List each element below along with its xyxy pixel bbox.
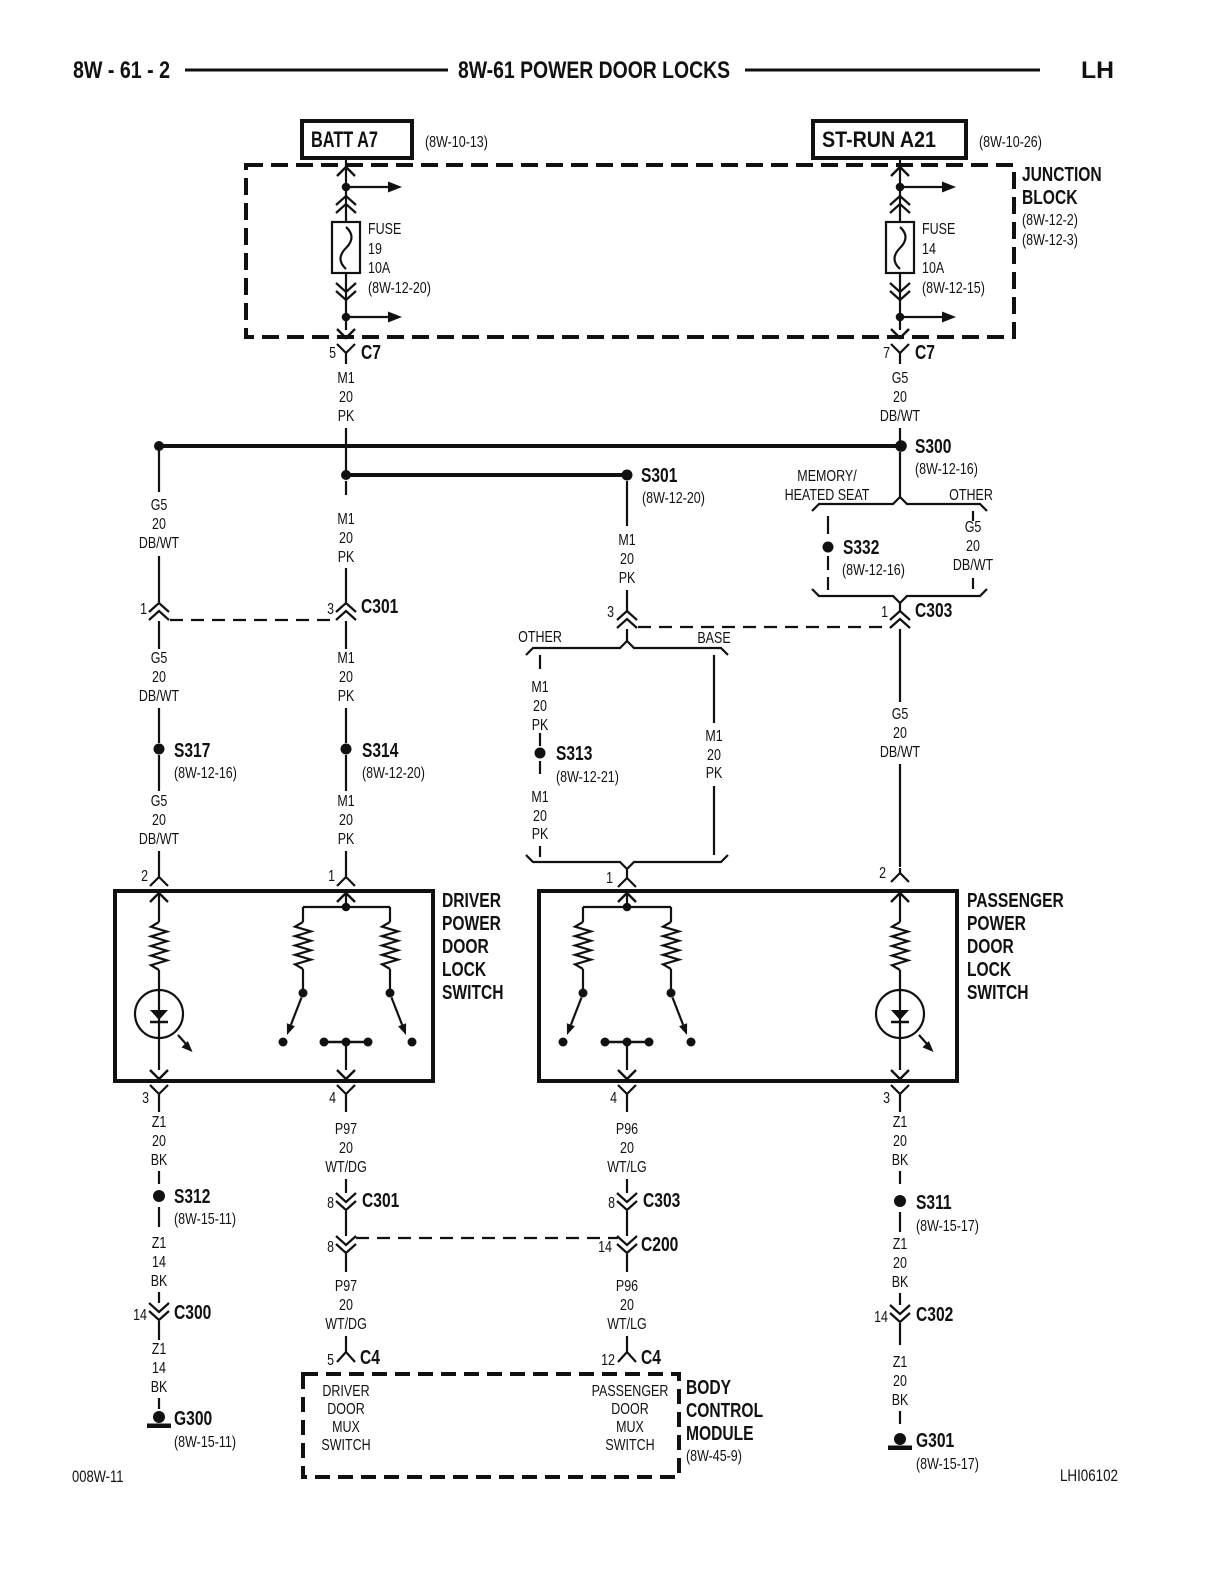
wire C303 down [899, 629, 901, 702]
svg-text:C303: C303 [643, 1190, 680, 1212]
option link C301 pins 1-3 (dashed) [170, 619, 336, 621]
svg-text:HEATED SEAT: HEATED SEAT [785, 487, 870, 504]
passenger switch resistor (lock side) [575, 922, 591, 969]
wire C301 to C200 [345, 1211, 347, 1236]
header rule left [185, 69, 448, 72]
svg-text:M1: M1 [618, 532, 635, 549]
svg-text:BK: BK [892, 1274, 909, 1291]
wire to C301 pin 3 [345, 568, 347, 602]
ground G300 [153, 1411, 165, 1423]
svg-text:S332: S332 [843, 537, 879, 559]
wire to C301 pin 1 [158, 556, 160, 602]
svg-text:20: 20 [620, 551, 634, 568]
driver switch output wire [345, 1042, 347, 1070]
splice S301 bus wire [346, 473, 627, 477]
power feed box ST-RUN A21 [813, 121, 966, 158]
junction dot above fuse 14 [896, 183, 905, 192]
svg-text:SWITCH: SWITCH [442, 982, 504, 1004]
wire C7-5 to splice S301 (M1 circuit) [345, 428, 347, 471]
splice S332 [823, 542, 834, 553]
splice S300 [895, 440, 907, 452]
wire to ground G300 [158, 1398, 160, 1409]
svg-text:C303: C303 [915, 600, 952, 622]
wire label P96 20 WT/LG (col C lower) [626, 1254, 628, 1272]
svg-text:20: 20 [707, 747, 721, 764]
ground G301 [894, 1433, 906, 1445]
feed arrow right below fuse 19 [346, 316, 388, 318]
svg-text:20: 20 [339, 669, 353, 686]
svg-text:(8W-12-20): (8W-12-20) [368, 280, 431, 297]
svg-text:20: 20 [893, 1373, 907, 1390]
junction dot below fuse 19 [342, 313, 351, 322]
svg-text:8W-61 POWER DOOR LOCKS: 8W-61 POWER DOOR LOCKS [458, 57, 730, 84]
svg-text:14: 14 [152, 1360, 166, 1377]
wire label M1 20 PK (col B upper) [345, 481, 347, 495]
wire S300 down (col D) [899, 452, 901, 497]
OTHER right branch dashed wire (upper) [972, 511, 974, 521]
svg-text:(8W-45-9): (8W-45-9) [686, 1448, 742, 1465]
wire C7-7 to splice S300 [899, 428, 901, 444]
passenger illumination resistor [892, 922, 908, 970]
feed arrow right above fuse 14 [900, 186, 942, 188]
svg-text:C302: C302 [916, 1304, 953, 1326]
svg-text:10A: 10A [922, 260, 944, 277]
svg-text:5: 5 [329, 345, 336, 362]
svg-text:8: 8 [327, 1239, 334, 1256]
svg-text:3: 3 [883, 1090, 890, 1107]
svg-text:Z1: Z1 [152, 1235, 167, 1252]
svg-text:G5: G5 [151, 497, 168, 514]
svg-text:PK: PK [532, 826, 549, 843]
svg-text:20: 20 [533, 808, 547, 825]
svg-text:PK: PK [338, 831, 355, 848]
svg-text:14: 14 [874, 1309, 888, 1326]
svg-text:DB/WT: DB/WT [139, 535, 179, 552]
svg-text:PASSENGER: PASSENGER [967, 890, 1064, 912]
svg-text:(8W-12-3): (8W-12-3) [1022, 232, 1078, 249]
svg-text:ST-RUN A21: ST-RUN A21 [822, 127, 936, 152]
svg-text:10A: 10A [368, 260, 390, 277]
terminal chevrons below fuse 19 [336, 283, 356, 300]
svg-text:(8W-15-17): (8W-15-17) [916, 1456, 979, 1473]
passenger LED exit arrow [891, 1070, 909, 1079]
svg-text:S314: S314 [362, 740, 399, 762]
svg-text:1: 1 [140, 601, 147, 618]
svg-text:PK: PK [619, 570, 636, 587]
junction block border [246, 165, 1014, 337]
wire label G5 20 DB/WT (col A mid) [158, 621, 160, 649]
driver switch resistor (lock side) [295, 922, 311, 969]
svg-text:20: 20 [152, 1133, 166, 1150]
wire to C301 pin 3 chevron (col C) [626, 590, 628, 611]
svg-text:14: 14 [133, 1307, 147, 1324]
wire chevron to split [626, 629, 628, 642]
driver LED exit arrow [150, 1070, 168, 1079]
driver switch wiper arrow (unlock) [392, 998, 403, 1025]
svg-text:PK: PK [338, 408, 355, 425]
splice S313 [535, 748, 546, 759]
arrow into junction block (left) [337, 167, 355, 176]
wire to splice S312 [158, 1171, 160, 1184]
svg-text:20: 20 [966, 538, 980, 555]
arrow into junction block (right) [891, 167, 909, 176]
svg-text:G5: G5 [151, 650, 168, 667]
svg-text:G301: G301 [916, 1430, 954, 1452]
svg-text:20: 20 [893, 1255, 907, 1272]
svg-text:MUX: MUX [332, 1419, 360, 1436]
svg-text:BK: BK [892, 1392, 909, 1409]
svg-text:BODY: BODY [686, 1377, 732, 1399]
svg-text:BK: BK [151, 1379, 168, 1396]
option link C200 pins 8-14 (dashed) [356, 1237, 618, 1239]
svg-text:BASE: BASE [697, 630, 730, 647]
svg-text:JUNCTION: JUNCTION [1022, 164, 1102, 186]
branch split OTHER/BASE [526, 641, 728, 655]
wire to splice S314 [345, 708, 347, 743]
passenger switch wiper arrow (lock) [571, 998, 582, 1025]
svg-text:LOCK: LOCK [442, 959, 487, 981]
svg-text:WT/DG: WT/DG [325, 1316, 367, 1333]
wire to driver switch pin 1 [345, 851, 347, 872]
OTHER branch dashed wire (to merge) [539, 846, 541, 857]
passenger switch pin 1 entry arrow [618, 893, 636, 902]
svg-text:SWITCH: SWITCH [967, 982, 1029, 1004]
fuse 19 [332, 222, 360, 273]
svg-text:3: 3 [327, 601, 334, 618]
svg-text:G5: G5 [892, 370, 909, 387]
svg-text:FUSE: FUSE [368, 221, 401, 238]
svg-text:(8W-15-11): (8W-15-11) [174, 1434, 236, 1451]
driver illumination resistor [151, 922, 167, 970]
junction dot below fuse 14 [896, 313, 905, 322]
svg-text:(8W-12-21): (8W-12-21) [556, 769, 619, 786]
fuse 14 [886, 222, 914, 273]
svg-text:20: 20 [893, 1133, 907, 1150]
branch merge above passenger pin 1 [526, 855, 728, 869]
svg-text:P97: P97 [335, 1121, 357, 1138]
svg-text:20: 20 [339, 530, 353, 547]
svg-text:WT/LG: WT/LG [607, 1316, 647, 1333]
svg-text:MODULE: MODULE [686, 1423, 754, 1445]
driver power door lock switch box [115, 891, 433, 1081]
junction dot left end of S301 bus [341, 470, 351, 480]
svg-text:DRIVER: DRIVER [442, 890, 501, 912]
wire S312 down [158, 1207, 160, 1227]
svg-text:C4: C4 [360, 1347, 381, 1369]
wire to C301 pin 8 [345, 1179, 347, 1193]
wire label P97 20 WT/DG (col B lower) [345, 1254, 347, 1272]
splice S301 [622, 470, 633, 481]
svg-text:DOOR: DOOR [967, 936, 1014, 958]
svg-text:20: 20 [620, 1297, 634, 1314]
svg-text:3: 3 [142, 1090, 149, 1107]
svg-text:20: 20 [339, 812, 353, 829]
wire fuse 14 to C7 [899, 273, 901, 330]
svg-text:2: 2 [879, 865, 886, 882]
MEMORY branch dashed wire (upper) [827, 516, 829, 534]
svg-text:(8W-15-11): (8W-15-11) [174, 1211, 236, 1228]
svg-text:(8W-12-15): (8W-12-15) [922, 280, 985, 297]
svg-text:S311: S311 [916, 1192, 952, 1214]
svg-text:(8W-15-17): (8W-15-17) [916, 1218, 979, 1235]
splice S312 [153, 1190, 165, 1202]
BASE branch wire (upper) [713, 655, 715, 723]
wire S311 down [899, 1212, 901, 1232]
svg-text:(8W-12-16): (8W-12-16) [842, 562, 905, 579]
svg-text:(8W-10-26): (8W-10-26) [979, 134, 1042, 151]
svg-text:C7: C7 [361, 342, 381, 364]
svg-text:S317: S317 [174, 740, 210, 762]
driver switch common bar [303, 906, 390, 908]
wire to ground G301 [899, 1411, 901, 1424]
svg-text:P97: P97 [335, 1278, 357, 1295]
feed arrow right above fuse 19 [346, 186, 388, 188]
header rule right [745, 69, 1040, 72]
wire S301 down [626, 481, 628, 526]
svg-text:LH: LH [1081, 57, 1114, 84]
svg-text:14: 14 [152, 1254, 166, 1271]
svg-text:G5: G5 [151, 793, 168, 810]
svg-text:20: 20 [620, 1140, 634, 1157]
svg-text:FUSE: FUSE [922, 221, 955, 238]
svg-text:4: 4 [329, 1090, 336, 1107]
svg-text:20: 20 [339, 1297, 353, 1314]
power feed box BATT A7 [302, 121, 412, 158]
body control module border [303, 1374, 679, 1477]
splice S311 [894, 1195, 906, 1207]
svg-text:LOCK: LOCK [967, 959, 1012, 981]
MEMORY branch dashed wire (lower) [827, 556, 829, 570]
svg-text:BK: BK [151, 1273, 168, 1290]
svg-text:S313: S313 [556, 743, 592, 765]
passenger switch resistor (unlock side) [663, 922, 679, 969]
svg-text:C7: C7 [915, 342, 935, 364]
svg-text:008W-11: 008W-11 [72, 1467, 124, 1486]
wire fuse 19 to C7 [345, 273, 347, 330]
passenger switch center contacts [605, 1041, 649, 1044]
svg-text:G5: G5 [965, 519, 982, 536]
terminal chevrons below fuse 14 [890, 283, 910, 300]
svg-text:C300: C300 [174, 1302, 211, 1324]
splice S300 bus wire [159, 444, 902, 448]
svg-text:MUX: MUX [616, 1419, 644, 1436]
svg-text:20: 20 [152, 669, 166, 686]
svg-text:DB/WT: DB/WT [953, 557, 993, 574]
svg-text:20: 20 [339, 1140, 353, 1157]
svg-text:1: 1 [881, 604, 888, 621]
svg-text:BLOCK: BLOCK [1022, 187, 1078, 209]
svg-text:SWITCH: SWITCH [321, 1437, 370, 1454]
svg-text:2: 2 [141, 868, 148, 885]
svg-text:SWITCH: SWITCH [605, 1437, 654, 1454]
BASE branch wire (lower) [713, 786, 715, 855]
svg-text:1: 1 [328, 868, 335, 885]
wire S314 down [345, 755, 347, 791]
passenger switch wiper pivots [582, 969, 584, 989]
svg-text:(8W-10-13): (8W-10-13) [425, 134, 488, 151]
svg-text:Z1: Z1 [152, 1341, 167, 1358]
svg-text:C4: C4 [641, 1347, 662, 1369]
svg-text:M1: M1 [531, 789, 548, 806]
svg-text:BATT A7: BATT A7 [311, 127, 378, 152]
svg-text:C200: C200 [641, 1234, 678, 1256]
svg-text:20: 20 [533, 698, 547, 715]
svg-text:G5: G5 [892, 706, 909, 723]
svg-text:M1: M1 [337, 370, 354, 387]
arrow to junction block border (right) [891, 329, 909, 338]
svg-text:M1: M1 [337, 511, 354, 528]
svg-text:WT/DG: WT/DG [325, 1159, 367, 1176]
passenger illumination LED [876, 990, 924, 1038]
svg-text:7: 7 [883, 345, 890, 362]
wire C303 to C200 (col C) [626, 1211, 628, 1236]
svg-text:M1: M1 [705, 728, 722, 745]
svg-text:(8W-12-20): (8W-12-20) [642, 490, 705, 507]
svg-text:(8W-12-16): (8W-12-16) [915, 461, 978, 478]
svg-text:19: 19 [368, 241, 382, 258]
svg-text:OTHER: OTHER [518, 629, 562, 646]
svg-text:S312: S312 [174, 1186, 210, 1208]
passenger switch output wire [626, 1042, 628, 1070]
OTHER branch dashed wire (lower) [539, 761, 541, 774]
branch split MEMORY/OTHER [812, 497, 987, 511]
svg-text:DB/WT: DB/WT [139, 831, 179, 848]
wire to C300 [158, 1292, 160, 1303]
svg-text:8: 8 [327, 1195, 334, 1212]
svg-text:DB/WT: DB/WT [880, 744, 920, 761]
svg-text:C301: C301 [361, 596, 398, 618]
svg-text:G300: G300 [174, 1408, 212, 1430]
svg-text:20: 20 [152, 516, 166, 533]
wire to splice S311 [899, 1171, 901, 1184]
wire S300 bus down (col A) [158, 448, 160, 492]
driver switch outer contacts [279, 1038, 288, 1047]
wire C302 down [899, 1323, 901, 1345]
option link col C to C303 pin 1 (dashed) [638, 626, 891, 628]
svg-text:BK: BK [151, 1152, 168, 1169]
svg-text:20: 20 [152, 812, 166, 829]
svg-text:Z1: Z1 [893, 1114, 908, 1131]
svg-text:12: 12 [601, 1352, 615, 1369]
wire to C4 pin 5 [345, 1336, 347, 1344]
svg-text:14: 14 [922, 241, 936, 258]
driver switch pin 4 exit arrow [337, 1070, 355, 1079]
svg-text:Z1: Z1 [893, 1354, 908, 1371]
svg-text:DRIVER: DRIVER [322, 1383, 369, 1400]
svg-text:20: 20 [893, 725, 907, 742]
driver illumination LED [135, 990, 183, 1038]
svg-text:C301: C301 [362, 1190, 399, 1212]
wire merge to pin 1 [626, 869, 628, 873]
svg-text:5: 5 [327, 1352, 334, 1369]
svg-text:MEMORY/: MEMORY/ [797, 468, 857, 485]
driver switch pin 1 entry arrow [337, 893, 355, 902]
svg-text:OTHER: OTHER [949, 487, 993, 504]
svg-text:PK: PK [532, 717, 549, 734]
svg-text:20: 20 [893, 389, 907, 406]
wire resistor to LED (passenger) [899, 970, 901, 1070]
wire to passenger switch pin 2 [899, 764, 901, 867]
driver switch wiper pivots [302, 969, 304, 989]
svg-text:DB/WT: DB/WT [880, 408, 920, 425]
passenger switch common junction dot [623, 903, 632, 912]
wire to C302 [899, 1293, 901, 1305]
svg-text:WT/LG: WT/LG [607, 1159, 647, 1176]
svg-text:(8W-12-20): (8W-12-20) [362, 765, 425, 782]
driver switch wiper arrow (lock) [291, 998, 302, 1025]
svg-text:P96: P96 [616, 1278, 638, 1295]
svg-text:DOOR: DOOR [442, 936, 489, 958]
wire merge to C303 [899, 603, 901, 611]
svg-text:CONTROL: CONTROL [686, 1400, 763, 1422]
svg-text:M1: M1 [337, 650, 354, 667]
svg-text:8: 8 [608, 1195, 615, 1212]
svg-text:14: 14 [598, 1239, 612, 1256]
svg-text:3: 3 [607, 604, 614, 621]
wire to C4 pin 12 [626, 1336, 628, 1344]
svg-text:PK: PK [338, 688, 355, 705]
passenger switch outer contacts [559, 1038, 568, 1047]
driver switch common junction dot [342, 903, 351, 912]
svg-text:Z1: Z1 [152, 1114, 167, 1131]
driver switch resistor (unlock side) [382, 922, 398, 969]
wire C300 down [158, 1321, 160, 1340]
svg-text:Z1: Z1 [893, 1236, 908, 1253]
OTHER right branch dashed wire (lower) [972, 578, 974, 589]
passenger power door lock switch box [539, 891, 957, 1081]
junction dot left end of S300 bus [154, 441, 164, 451]
svg-text:S300: S300 [915, 436, 951, 458]
wire label M1 20 PK (col B mid) [345, 621, 347, 649]
driver switch center contacts [324, 1041, 368, 1044]
svg-text:PASSENGER: PASSENGER [592, 1383, 669, 1400]
wire resistor to LED [158, 970, 160, 1070]
svg-text:1: 1 [606, 870, 613, 887]
svg-text:(8W-12-2): (8W-12-2) [1022, 212, 1078, 229]
branch merge above C303 pin 1 [812, 589, 987, 603]
svg-text:4: 4 [610, 1090, 617, 1107]
svg-text:(8W-12-16): (8W-12-16) [174, 765, 237, 782]
svg-text:DB/WT: DB/WT [139, 688, 179, 705]
svg-text:DOOR: DOOR [611, 1401, 648, 1418]
splice S317 [154, 744, 165, 755]
svg-text:PK: PK [338, 549, 355, 566]
passenger switch pin 4 exit arrow [618, 1070, 636, 1079]
OTHER branch dashed wire (upper) [539, 655, 541, 669]
svg-text:LHI06102: LHI06102 [1060, 1466, 1118, 1485]
svg-text:P96: P96 [616, 1121, 638, 1138]
junction dot above fuse 19 [342, 183, 351, 192]
svg-text:M1: M1 [531, 679, 548, 696]
wire to C303 pin 8 [626, 1179, 628, 1193]
arrow to junction block border (left) [337, 329, 355, 338]
wire S317 down [158, 755, 160, 791]
svg-text:M1: M1 [337, 793, 354, 810]
passenger switch pin 2 entry arrow [891, 893, 909, 902]
svg-text:DOOR: DOOR [327, 1401, 364, 1418]
svg-text:8W - 61 - 2: 8W - 61 - 2 [73, 57, 170, 84]
wire to driver switch pin 2 [158, 851, 160, 872]
wire ST-RUN A21 to fuse 14 [899, 158, 901, 222]
wire BATT A7 to fuse 19 [345, 158, 347, 222]
svg-text:20: 20 [339, 389, 353, 406]
splice S314 [341, 744, 352, 755]
wire to splice S317 [158, 708, 160, 743]
svg-text:POWER: POWER [442, 913, 501, 935]
passenger switch wiper arrow (unlock) [673, 998, 684, 1025]
svg-text:S301: S301 [641, 465, 677, 487]
terminal chevrons above fuse 19 [336, 196, 356, 213]
